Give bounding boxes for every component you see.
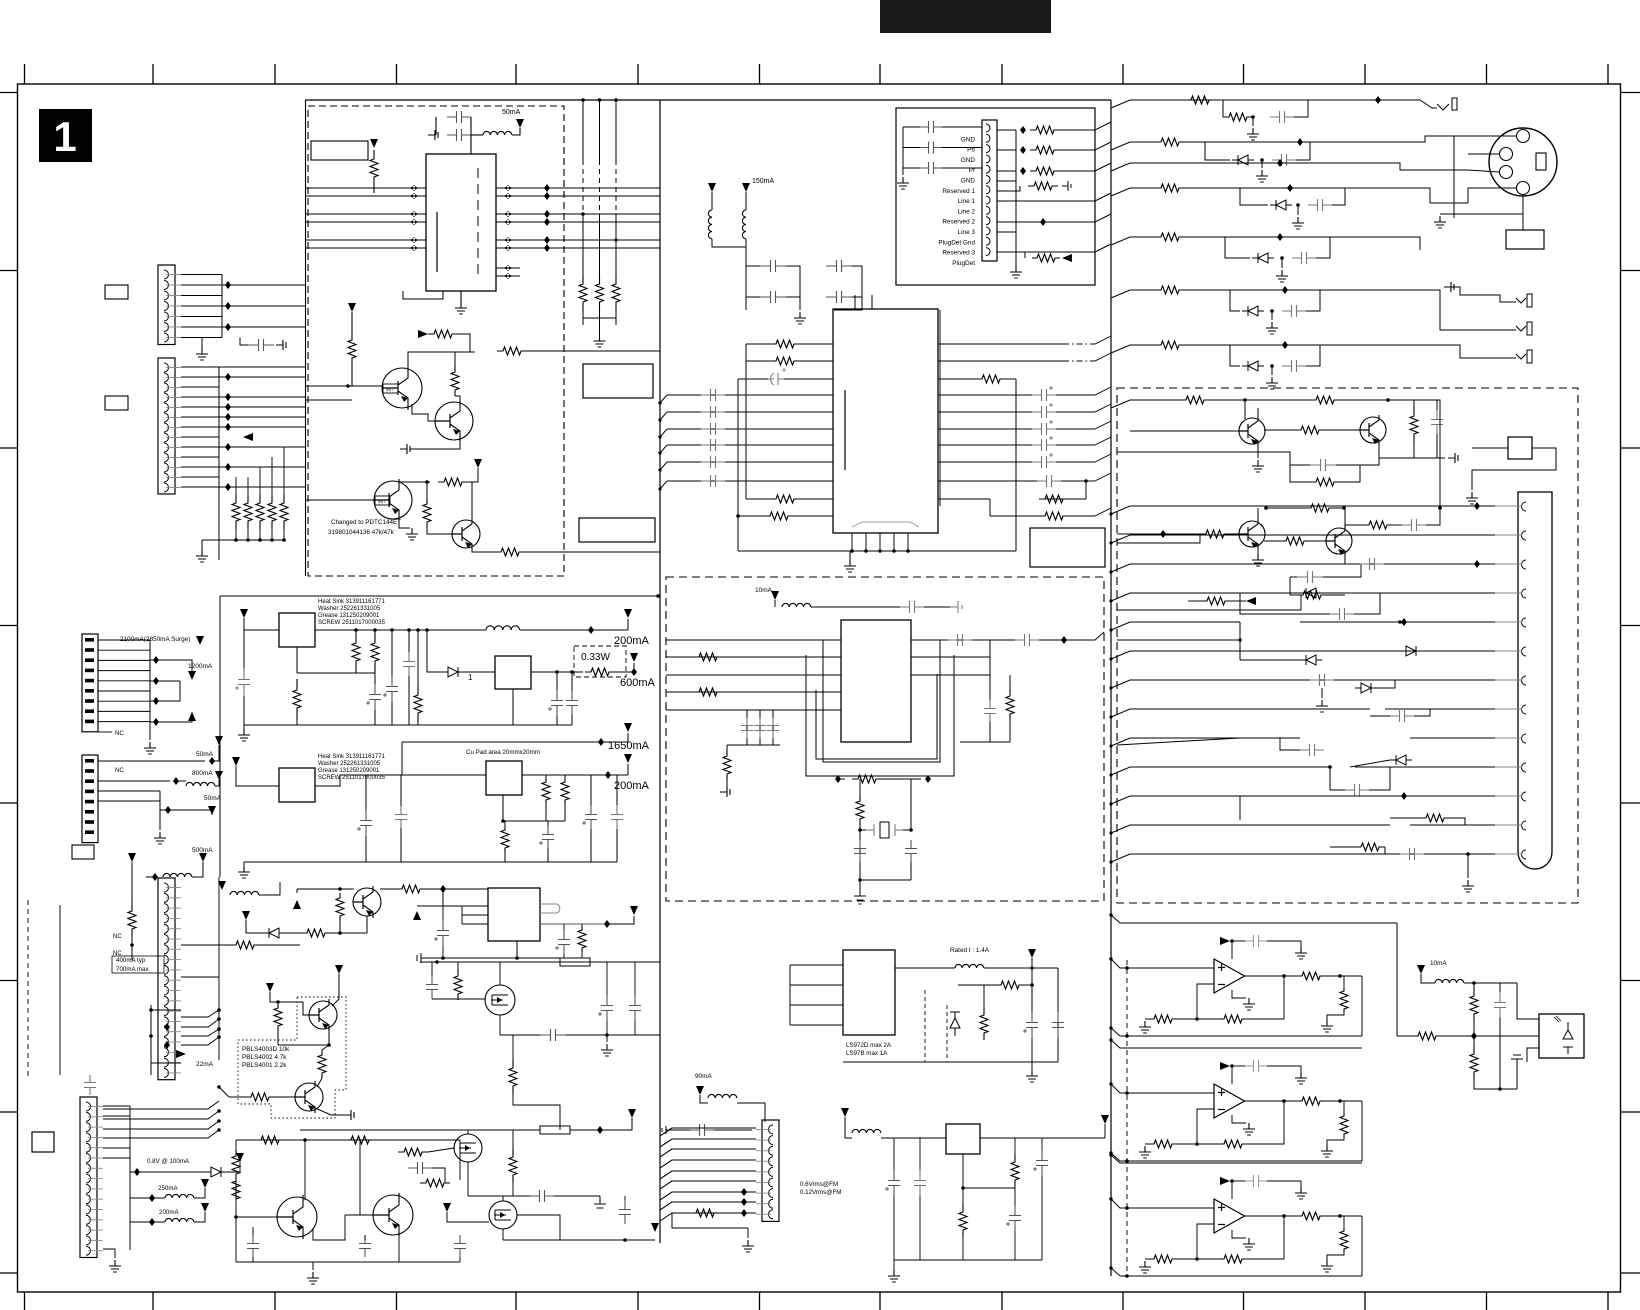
wire U1 right pin (496, 221, 660, 223)
power arrow (266, 983, 274, 992)
capacitor (1400, 848, 1424, 860)
wire reg2 pin (502, 795, 504, 821)
resistor (302, 929, 330, 937)
wire CN4 (98, 760, 205, 762)
wire U2 left row (667, 461, 833, 463)
wire U2 r481 (938, 480, 1037, 482)
resistor (976, 375, 1006, 383)
resistor R3 (497, 347, 527, 355)
wire plugdet gnd (997, 231, 1016, 233)
connector pin arc (1522, 792, 1527, 801)
wire U2 row379 (738, 378, 768, 380)
wire (1014, 1188, 1016, 1205)
wire (1252, 117, 1254, 126)
wire (1360, 100, 1437, 108)
resistor minus1 (1148, 1255, 1178, 1263)
junction dot (1328, 765, 1332, 769)
wire (1316, 237, 1330, 258)
wire (435, 117, 437, 135)
resistor (1030, 146, 1060, 154)
junction (440, 885, 446, 893)
wire (271, 487, 273, 495)
connector pin arc (1522, 560, 1527, 569)
svg-text:Cu Pad area 20mmx20mm: Cu Pad area 20mmx20mm (466, 749, 540, 756)
wire CN2 row long (219, 416, 305, 418)
transistor Q4 (452, 520, 480, 548)
junction dot (1084, 479, 1088, 483)
junction dot (1472, 981, 1476, 985)
power arrow (630, 653, 638, 662)
capacitor pol (768, 373, 784, 385)
capacitor (914, 1170, 926, 1196)
ground (888, 1270, 900, 1282)
wire out (1245, 1215, 1295, 1217)
wire (1031, 968, 1033, 1012)
resistor (345, 1136, 375, 1144)
ground (1266, 377, 1278, 389)
junction dot (425, 480, 429, 484)
wire CN2 row (181, 366, 219, 368)
junction (153, 718, 159, 726)
wire (1350, 760, 1390, 767)
dashed box tuner block (308, 106, 564, 576)
wire loop kink (1111, 1028, 1120, 1036)
wire U2 r499 (938, 498, 990, 500)
wire (160, 810, 212, 815)
wire Q5-Q6 coupling (1257, 408, 1259, 419)
ground out (1321, 1145, 1333, 1157)
wire (252, 1227, 254, 1235)
capacitor (920, 121, 942, 133)
capacitor (1032, 423, 1056, 435)
wire (259, 882, 280, 895)
wire U1 left pin (306, 195, 426, 197)
pin arrows (410, 219, 418, 225)
svg-text:LS97B max 1A: LS97B max 1A (846, 1050, 888, 1057)
wire (903, 147, 920, 149)
junction (1297, 138, 1303, 146)
ground (1434, 216, 1446, 228)
transistor Q10 (309, 1001, 337, 1029)
junction dot (1109, 1266, 1112, 1269)
capacitor cn6 (84, 1075, 96, 1095)
resistor (1011, 1155, 1019, 1187)
page number 1 box (39, 109, 92, 162)
resistor (723, 750, 731, 780)
junction dot (1466, 852, 1470, 856)
wire (1248, 1216, 1284, 1259)
resistor (1155, 286, 1185, 294)
wire ext13 (1160, 853, 1330, 855)
wire (1245, 399, 1310, 401)
wire cn7 fan (660, 1181, 756, 1189)
wire (461, 906, 463, 924)
wire (615, 671, 634, 673)
wire U1 left pin (306, 213, 426, 215)
wire row630 (244, 629, 279, 631)
connector pin arc (986, 237, 990, 245)
wire (1230, 533, 1239, 535)
coil L1 (708, 210, 712, 239)
wire U3 right pin (911, 639, 990, 641)
signal ground (428, 130, 438, 140)
svg-text:0.33W: 0.33W (581, 652, 610, 663)
resistor minus1 (1148, 1140, 1178, 1148)
junction (149, 1218, 155, 1226)
dashed wire left (27, 900, 29, 1080)
junction (1020, 146, 1026, 154)
wire (417, 722, 419, 725)
wire (1090, 336, 1111, 344)
resistor (856, 795, 864, 825)
wire q9 emitter (366, 916, 368, 933)
junction dot (1109, 715, 1112, 718)
wire (1057, 968, 1059, 1062)
diode (263, 928, 285, 938)
wire (564, 775, 566, 779)
capacitor (1036, 1150, 1048, 1176)
wire ext6 (1160, 650, 1350, 652)
capacitor (585, 805, 597, 829)
IC tray (852, 522, 919, 527)
wire sub1 (1222, 100, 1224, 117)
wire ls out (895, 967, 955, 969)
wire vertical dashed (582, 160, 584, 215)
resistor pulldown (579, 275, 587, 311)
power arrow (196, 636, 204, 645)
ground (1252, 460, 1264, 472)
IC U1 inner dashes (477, 168, 479, 278)
wire (1473, 983, 1475, 988)
capacitor (754, 718, 766, 738)
wire (355, 672, 357, 673)
wire (227, 1162, 240, 1172)
wire (355, 630, 357, 632)
junction (165, 806, 171, 814)
wire (1270, 163, 1468, 170)
wire drop x583 (582, 100, 584, 106)
resistor (1200, 530, 1230, 538)
wire (447, 1212, 489, 1222)
wire (1388, 400, 1440, 418)
wire (1271, 311, 1273, 320)
wire (1178, 1143, 1218, 1145)
wire (547, 821, 549, 826)
diode (1232, 155, 1254, 165)
capacitor (1037, 475, 1061, 487)
wire (582, 311, 584, 325)
transistor Q7 (1239, 521, 1265, 547)
wire bus kink (1111, 564, 1160, 572)
capacitor (1360, 558, 1384, 570)
wire (1006, 378, 1016, 380)
junction dot (858, 828, 862, 832)
signal ground v (854, 893, 866, 904)
wire cn7 f5 (660, 1171, 756, 1179)
svg-text:200mA: 200mA (614, 635, 650, 647)
junction dot (1230, 1064, 1234, 1068)
wire (1280, 188, 1468, 203)
wire U1 right pin (496, 187, 660, 189)
wire (512, 128, 520, 135)
wire out2 (522, 774, 628, 776)
wire reg3 pin (516, 941, 518, 958)
capacitor (1292, 252, 1316, 264)
power arrow (348, 303, 356, 312)
box IR receiver (1539, 1014, 1584, 1058)
junction dot (346, 384, 350, 388)
wire (252, 1257, 254, 1262)
wire (364, 1235, 366, 1240)
wire CN2 row long (219, 406, 305, 408)
wire (235, 1180, 237, 1262)
wire (811, 606, 900, 608)
wire loop kink (1111, 1153, 1120, 1161)
signal ground top jacks (1444, 282, 1454, 292)
resistor (414, 686, 422, 722)
connector pin arc (1522, 705, 1527, 714)
power arrow up (293, 900, 301, 909)
resistor (352, 632, 360, 672)
junction dot (1109, 957, 1112, 960)
wire (408, 676, 410, 725)
pin arrows (504, 219, 512, 225)
svg-text:700mA max: 700mA max (116, 966, 150, 973)
capacitor end (1062, 181, 1071, 191)
ground (1466, 492, 1478, 504)
wire CN2 row long (219, 466, 305, 468)
resistor (959, 1205, 967, 1237)
wire row7 (1111, 345, 1155, 353)
wire opamp gnd (1232, 1115, 1246, 1123)
junction dot (234, 1215, 238, 1219)
wire (502, 1196, 504, 1201)
wire bus kink (1111, 506, 1160, 514)
wire (972, 639, 1015, 641)
power arrow (651, 1223, 659, 1232)
connector pin arc (986, 145, 990, 153)
resistor gnd leg (1340, 1228, 1348, 1252)
wire (1060, 163, 1111, 171)
resistor gnd leg (1340, 988, 1348, 1012)
signal arrow (176, 1050, 186, 1058)
wire (556, 672, 558, 690)
wire rc6 (1355, 650, 1495, 652)
wire (774, 600, 776, 607)
wire (468, 468, 478, 482)
junction dot (605, 1033, 609, 1037)
wire vertical bus x660 (659, 100, 661, 1243)
resistor minus2 (1218, 1140, 1248, 1148)
box Q-power2 (279, 768, 315, 802)
power arrow (218, 881, 226, 890)
svg-text:PBLS4002 4.7k: PBLS4002 4.7k (242, 1054, 287, 1061)
wire reg1 gnd (512, 689, 514, 725)
capacitor (601, 995, 613, 1021)
wire (285, 932, 302, 934)
base resistor box (383, 384, 398, 393)
junction dot (1109, 657, 1112, 660)
DIN connector circle (1489, 128, 1557, 196)
wire (852, 266, 862, 297)
wire row3 (1111, 163, 1270, 171)
wire (554, 1195, 600, 1197)
junction dot (1338, 974, 1342, 978)
wire NC (98, 731, 112, 733)
wire (1294, 100, 1308, 117)
wire (786, 266, 800, 297)
wire Q4 emitter (472, 547, 495, 552)
svg-text:NC: NC (113, 934, 122, 940)
junction dot (1386, 398, 1390, 402)
wire v427 (427, 630, 442, 672)
wire (997, 129, 1016, 131)
opamp stage 1 fb arrow (1220, 937, 1230, 945)
wire ext4 (1160, 592, 1240, 594)
signal ground d (594, 1196, 606, 1208)
wire (1343, 976, 1345, 988)
power arrow (128, 853, 136, 862)
resistor R6 (423, 498, 431, 528)
IC U1 body (426, 154, 496, 291)
wire (989, 722, 991, 742)
wire join r (960, 741, 1010, 743)
resistor (764, 512, 794, 520)
wire (924, 606, 950, 608)
junction (544, 210, 550, 218)
wire CN3 rows (98, 639, 150, 641)
diode (1390, 755, 1412, 765)
junction (544, 218, 550, 226)
capacitor U2-in (701, 389, 725, 401)
wire reg4 bottom (894, 1259, 1042, 1261)
wire sub6 (1230, 290, 1240, 311)
resistor minus1 (1148, 1015, 1178, 1023)
wire (468, 1195, 530, 1197)
coil (165, 1194, 194, 1198)
wire (1327, 1252, 1344, 1260)
junction (1277, 159, 1283, 167)
wire Q6 emitter (1379, 442, 1420, 458)
wire base bus (306, 385, 352, 387)
wire cn6 tail (103, 1249, 115, 1258)
pin arrows (410, 245, 418, 251)
coil (782, 603, 811, 607)
wire (500, 1015, 540, 1035)
wire (712, 239, 746, 247)
wire fan row4 (181, 1037, 219, 1045)
wire (845, 1117, 852, 1138)
svg-text:Line 2: Line 2 (958, 208, 976, 215)
wire U2 row344 (746, 343, 770, 345)
wire (201, 338, 203, 349)
wire (259, 487, 261, 495)
wire (1281, 258, 1283, 268)
capacitor (359, 1235, 371, 1257)
wire CN2 row (181, 436, 219, 438)
wire (240, 338, 248, 346)
ground (1266, 322, 1278, 334)
box AV connector block (896, 108, 1095, 285)
wire (1397, 1035, 1412, 1037)
wire CN1 row (181, 284, 305, 286)
svg-text:50mA: 50mA (502, 109, 521, 116)
wire (1472, 447, 1508, 449)
wire jog (989, 499, 991, 516)
wire (1031, 958, 1033, 968)
svg-text:500mA: 500mA (192, 847, 213, 854)
pin stub (1495, 708, 1522, 710)
resistor ladder (280, 495, 288, 529)
op-amp U12 (1214, 1199, 1245, 1233)
coil (230, 891, 259, 895)
resistor (1039, 512, 1069, 520)
junction (164, 1023, 170, 1031)
svg-text:22mA: 22mA (196, 1061, 214, 1068)
wire row5 (1111, 237, 1155, 245)
capacitor fb (1245, 1175, 1267, 1187)
junction (1020, 126, 1026, 134)
wire CN2 row (181, 426, 219, 428)
ground out (1321, 1020, 1333, 1032)
connector pin arc (986, 165, 990, 173)
wire v418 (417, 630, 419, 686)
wire U3 left pin (666, 674, 841, 676)
wire (260, 944, 300, 946)
capacitor (760, 291, 786, 303)
junction (225, 403, 231, 411)
ground (594, 335, 606, 347)
junction (1375, 96, 1381, 104)
capacitor (403, 652, 415, 676)
wire loop bottom (1120, 1035, 1362, 1037)
wire (243, 618, 245, 630)
wire (607, 916, 634, 924)
wire rc10 (1355, 766, 1495, 768)
signal ground (344, 1110, 354, 1120)
junction (544, 236, 550, 244)
connector pin arc (986, 217, 990, 225)
ground opamp (1243, 1238, 1255, 1250)
wire (236, 766, 279, 786)
junction dot (909, 828, 913, 832)
wire (1056, 404, 1111, 412)
capacitor (360, 810, 372, 836)
wire U2 right row (938, 461, 1032, 463)
wire Q5 emitter (1257, 444, 1259, 458)
junction (1282, 341, 1288, 349)
svg-text:400mA typ: 400mA typ (116, 957, 146, 964)
wire (545, 775, 547, 779)
junction (1287, 184, 1293, 192)
wire cn7 fan (660, 1139, 756, 1147)
wire (1014, 1138, 1016, 1155)
capacitor (690, 1124, 714, 1136)
wire fan1 (151, 1009, 181, 1011)
svg-text:200mA: 200mA (159, 1209, 179, 1216)
wire bot (502, 1229, 504, 1240)
wire (431, 962, 433, 975)
junction (604, 920, 610, 928)
resistor (980, 1008, 988, 1040)
junction (741, 1188, 747, 1196)
connector pin arc (986, 176, 990, 184)
wire (146, 876, 155, 878)
power arrow (630, 906, 638, 915)
svg-text:90mA: 90mA (695, 1073, 712, 1080)
wire ls left (789, 965, 791, 1025)
svg-text:SCREW 2511017000035: SCREW 2511017000035 (318, 775, 386, 781)
